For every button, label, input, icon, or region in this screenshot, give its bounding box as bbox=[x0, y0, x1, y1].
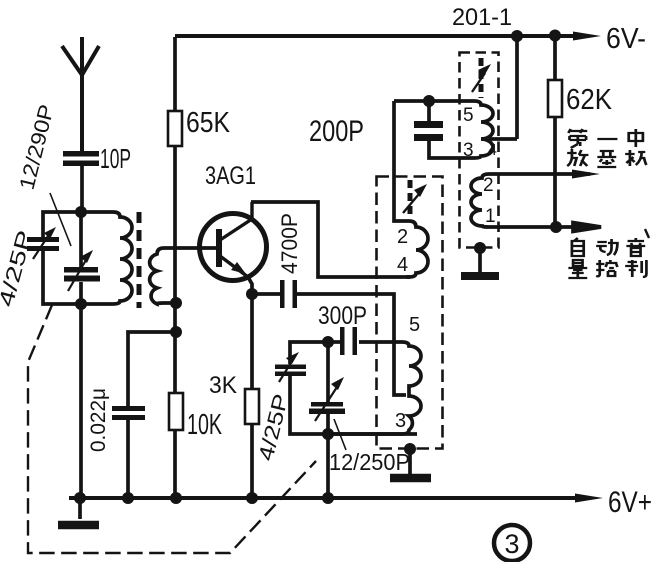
wire emitter down bbox=[248, 277, 252, 389]
capacitor 10P bbox=[63, 151, 99, 166]
wire gang dashed line bbox=[28, 305, 316, 553]
wire antenna to node A bbox=[80, 166, 84, 212]
svg-text:200P: 200P bbox=[309, 115, 364, 148]
svg-text:3: 3 bbox=[504, 529, 519, 559]
node emitter junction bbox=[246, 288, 258, 300]
resistor R1 65K bbox=[173, 37, 177, 111]
svg-text:62K: 62K bbox=[566, 84, 613, 116]
transformer T1 primary bbox=[81, 212, 132, 304]
transformer T2 core arrow bbox=[408, 180, 413, 216]
node B junction bbox=[75, 298, 87, 310]
svg-text:201-1: 201-1 bbox=[452, 4, 512, 31]
svg-text:2: 2 bbox=[397, 226, 408, 248]
wire collector bbox=[251, 202, 410, 277]
label Chinese first IF base (hand-drawn glyphs) bbox=[567, 129, 646, 167]
node circled 3 bbox=[494, 525, 530, 561]
wire 6V- to pin4 bbox=[515, 36, 519, 139]
svg-text:3: 3 bbox=[395, 410, 406, 432]
svg-text:4: 4 bbox=[488, 142, 497, 159]
svg-text:2: 2 bbox=[483, 175, 494, 196]
transformer T2 dashed box bbox=[377, 177, 443, 449]
antenna bbox=[62, 37, 99, 152]
wire top rail 6V- bbox=[175, 34, 588, 38]
node junction secondary bottom bbox=[170, 297, 182, 309]
capacitor C3 0.022u branch bbox=[128, 332, 176, 406]
capacitor C5 300P bbox=[340, 327, 357, 355]
svg-text:5: 5 bbox=[463, 105, 474, 126]
resistor R2 10K bbox=[169, 393, 183, 430]
node 6V- arrow bbox=[573, 32, 601, 41]
svg-text:10K: 10K bbox=[187, 409, 222, 441]
svg-text:0.022μ: 0.022μ bbox=[87, 388, 110, 452]
capacitor variable C2 12/290P bbox=[79, 212, 83, 267]
transformer T3 core arrow bbox=[479, 58, 484, 98]
transformer T2 winding 2-4 bbox=[394, 101, 428, 277]
node arrow AGC bbox=[556, 223, 601, 232]
resistor R4 62K bbox=[553, 36, 557, 80]
resistor R3 3K bbox=[245, 389, 259, 424]
node 6V+ arrow bbox=[575, 494, 603, 503]
wire pin3 to tank bbox=[328, 432, 417, 436]
node junction top rail at x555 bbox=[549, 30, 561, 42]
label Chinese AGC (hand-drawn glyphs) bbox=[568, 238, 646, 278]
capacitor trimmer C1 arrow bbox=[33, 233, 50, 259]
wire bottom rail 6V+ bbox=[69, 496, 590, 500]
svg-text:3AG1: 3AG1 bbox=[205, 162, 256, 190]
svg-text:10P: 10P bbox=[100, 143, 131, 174]
svg-text:4700P: 4700P bbox=[277, 213, 302, 274]
svg-text:6V+: 6V+ bbox=[608, 486, 652, 519]
wire pointer 12/250P bbox=[334, 419, 346, 450]
capacitor variable C7 12/250P bbox=[326, 342, 330, 402]
node junctions bottom rail bbox=[74, 492, 86, 504]
wire trimmer branch top bbox=[43, 212, 81, 238]
svg-text:6V-: 6V- bbox=[606, 23, 646, 55]
svg-text:4: 4 bbox=[397, 254, 408, 276]
svg-text:3: 3 bbox=[463, 140, 474, 161]
svg-text:3K: 3K bbox=[209, 372, 237, 399]
transformer T3 winding 2-1 bbox=[471, 174, 590, 227]
transformer T3 dashed box bbox=[460, 53, 499, 248]
capacitor C4 4700P bbox=[252, 292, 280, 296]
capacitor C8 200P bbox=[394, 99, 474, 103]
transformer T1 secondary bbox=[150, 248, 216, 304]
svg-text:5: 5 bbox=[409, 314, 420, 336]
svg-text:12/250P: 12/250P bbox=[329, 449, 410, 475]
wire tap pin4 bbox=[481, 137, 517, 141]
node junction 0.022 branch bbox=[170, 326, 182, 338]
node osc tank top junction bbox=[322, 336, 334, 348]
transformer T2 winding 5-3 bbox=[328, 342, 421, 434]
node osc tank bottom junction bbox=[322, 428, 334, 440]
svg-text:65K: 65K bbox=[186, 107, 231, 139]
transformer T1 core bbox=[137, 212, 142, 308]
capacitor trimmer C6 4/25P osc bbox=[290, 342, 328, 364]
ground osc transformer bbox=[404, 443, 416, 455]
wire pointer 12/290P bbox=[50, 193, 71, 246]
node junction top rail at x517 bbox=[511, 30, 523, 42]
capacitor trimmer C1 4/25P plates bbox=[27, 237, 59, 251]
svg-text:1: 1 bbox=[485, 206, 496, 227]
transformer T3 winding 5-3-4 bbox=[429, 101, 493, 158]
ground IF transformer bbox=[474, 242, 486, 254]
wire node B to bottom rail bbox=[79, 304, 83, 498]
node A junction bbox=[75, 206, 87, 218]
wire trimmer branch bottom bbox=[43, 251, 81, 304]
node arrow to first IF base bbox=[572, 170, 600, 179]
ground main bbox=[78, 498, 82, 519]
svg-text:300P: 300P bbox=[318, 302, 367, 330]
transistor Q1 3AG1 bbox=[200, 214, 267, 281]
label tick mark bbox=[645, 229, 649, 238]
